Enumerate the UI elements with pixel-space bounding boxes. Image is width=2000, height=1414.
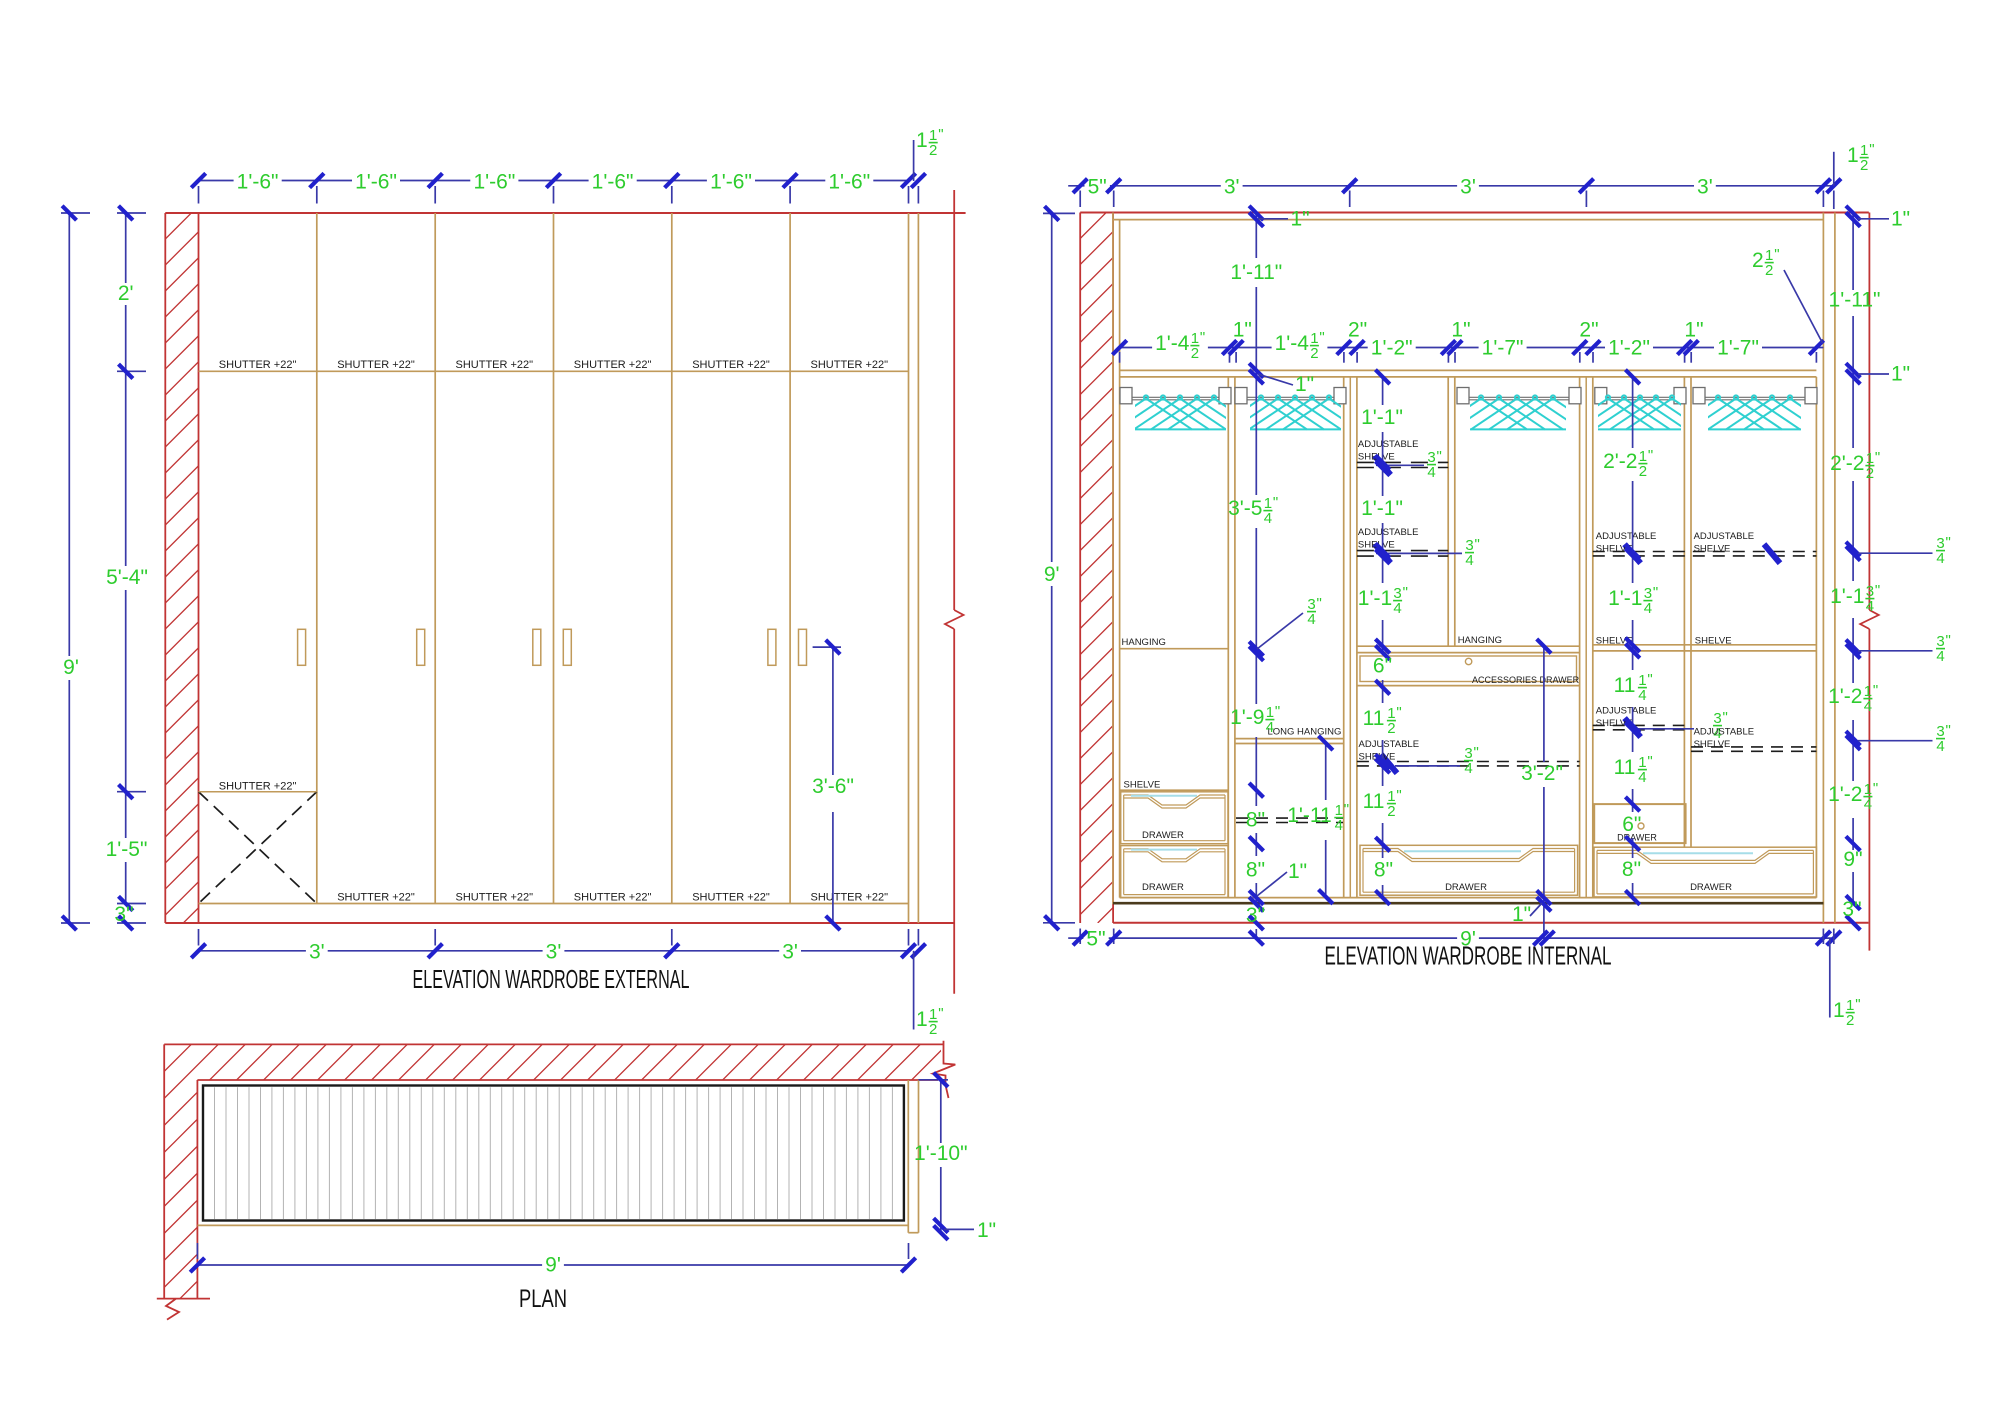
svg-text:1: 1	[916, 129, 928, 152]
svg-text:": "	[1275, 703, 1280, 720]
svg-text:ADJUSTABLE: ADJUSTABLE	[1694, 727, 1755, 738]
svg-text:1": 1"	[1233, 319, 1252, 342]
svg-text:": "	[1437, 448, 1442, 465]
svg-text:1": 1"	[1891, 207, 1910, 230]
svg-text:4: 4	[1864, 698, 1872, 715]
internal: module2 bay bottom shelf	[1357, 645, 1580, 647]
svg-text:1: 1	[1833, 999, 1845, 1022]
svg-text:1'-5": 1'-5"	[106, 838, 148, 861]
internal: module3 bottom drawer	[1594, 847, 1816, 897]
internal elevation: right wall line with break	[1868, 213, 1870, 611]
dim: external shutter height 3'-6"	[832, 647, 834, 775]
svg-text:2: 2	[1752, 249, 1764, 272]
svg-text:1'-1: 1'-1	[1830, 585, 1864, 608]
svg-text:5": 5"	[1088, 175, 1107, 198]
svg-text:ELEVATION WARDROBE EXTERNAL: ELEVATION WARDROBE EXTERNAL	[413, 964, 690, 994]
dim: internal shelf row 1'-4 1/2" etc	[1120, 347, 1153, 349]
internal: module3 left adjustable shelf (dashed)	[1593, 724, 1685, 726]
internal: module1 hanging shelf	[1120, 648, 1229, 650]
internal elevation: ceiling line	[1080, 212, 1869, 214]
svg-text:": "	[1946, 534, 1951, 551]
svg-text:SHUTTER +22": SHUTTER +22"	[337, 892, 415, 904]
svg-text:": "	[1653, 584, 1658, 601]
svg-text:SHUTTER +22": SHUTTER +22"	[456, 892, 534, 904]
svg-text:2'-2: 2'-2	[1830, 452, 1864, 475]
plan: wardrobe right side panel	[907, 1080, 909, 1233]
svg-text:": "	[1474, 744, 1479, 761]
internal: module2 adjustable shelf 2 (dashed)	[1357, 550, 1448, 552]
plan: wardrobe front line	[197, 1224, 908, 1226]
svg-text:5'-4": 5'-4"	[106, 566, 148, 589]
dim: external left column 2' / 5'-4" / 1'-5" / 3"	[125, 213, 127, 283]
internal: module2 bottom drawer	[1360, 845, 1578, 895]
svg-text:3": 3"	[1842, 898, 1861, 921]
svg-text:2': 2'	[118, 282, 134, 305]
dim: module1 vertical chain	[1255, 213, 1257, 258]
svg-text:2'-2: 2'-2	[1603, 450, 1637, 473]
svg-text:2: 2	[1860, 157, 1868, 174]
svg-text:ADJUSTABLE: ADJUSTABLE	[1358, 439, 1419, 450]
svg-text:1": 1"	[1288, 860, 1307, 883]
dim: external top width line 1'-6" x6	[199, 180, 234, 182]
svg-text:1'-2: 1'-2	[1828, 783, 1862, 806]
svg-text:": "	[1946, 722, 1951, 739]
internal: module3 rod + hangers right	[1693, 388, 1705, 404]
svg-text:11: 11	[1363, 790, 1385, 813]
svg-text:ADJUSTABLE: ADJUSTABLE	[1596, 531, 1657, 542]
svg-text:ADJUSTABLE: ADJUSTABLE	[1694, 531, 1755, 542]
dim: internal right outer chain	[1852, 213, 1854, 290]
svg-text:SHELVE: SHELVE	[1694, 739, 1731, 750]
svg-text:1": 1"	[977, 1219, 996, 1242]
dim: plan width 9'	[197, 1264, 542, 1266]
internal: module3 adjustable shelf top (dashed)	[1593, 551, 1817, 553]
svg-text:1'-1": 1'-1"	[1361, 497, 1403, 520]
svg-text:1'-6": 1'-6"	[710, 171, 752, 194]
internal elevation: bottom panel dark line	[1113, 902, 1823, 905]
internal: module1 long hanging shelf	[1235, 738, 1344, 740]
dim: plan shutter thickness 1"	[944, 1228, 974, 1230]
internal: module3 small drawer (6")	[1594, 804, 1685, 843]
internal: module2 adjustable shelf (dashed)	[1357, 761, 1580, 763]
svg-text:3'-5: 3'-5	[1228, 497, 1262, 520]
dim: external top right 1 1/2"	[911, 173, 925, 187]
internal elevation: module1 centre divider (1")	[1227, 377, 1229, 898]
svg-text:1'-10": 1'-10"	[914, 1142, 968, 1165]
svg-text:1'-7": 1'-7"	[1482, 337, 1524, 360]
internal elevation: carcass top panel inner line	[1113, 219, 1823, 221]
external elevation: right wall line with break	[953, 190, 955, 610]
svg-text:SHELVE: SHELVE	[1124, 780, 1161, 791]
svg-text:3'-2": 3'-2"	[1521, 762, 1563, 785]
plan: wall outlines	[164, 1043, 943, 1045]
svg-text:1'-2": 1'-2"	[1371, 337, 1413, 360]
internal: module1 drawer 1	[1121, 792, 1228, 844]
svg-text:": "	[1273, 494, 1278, 511]
svg-text:SHUTTER +22": SHUTTER +22"	[456, 359, 534, 371]
svg-text:1'-11: 1'-11	[1287, 804, 1331, 827]
internal: module1 hanging rod + hangers right	[1235, 388, 1247, 404]
svg-text:SHUTTER +22": SHUTTER +22"	[337, 359, 415, 371]
svg-text:1'-1: 1'-1	[1608, 587, 1642, 610]
internal elevation: carcass right panel	[1815, 377, 1817, 898]
svg-text:1: 1	[916, 1008, 928, 1031]
svg-text:SHUTTER +22": SHUTTER +22"	[811, 359, 889, 371]
svg-text:8": 8"	[1374, 859, 1393, 882]
svg-text:": "	[1723, 709, 1728, 726]
svg-text:6": 6"	[1373, 655, 1392, 678]
dim: internal top 5" + 3' x3	[1068, 185, 1084, 187]
svg-text:4: 4	[1464, 760, 1472, 777]
external elevation: ceiling line	[165, 212, 965, 214]
svg-text:2: 2	[1765, 262, 1773, 279]
svg-text:1'-9: 1'-9	[1230, 706, 1264, 729]
svg-text:2: 2	[1866, 465, 1874, 482]
internal: module1 drawer 2	[1121, 846, 1228, 898]
svg-text:ELEVATION WARDROBE INTERNAL: ELEVATION WARDROBE INTERNAL	[1325, 941, 1612, 971]
svg-text:3': 3'	[309, 940, 325, 963]
svg-text:": "	[1200, 329, 1205, 346]
svg-text:1": 1"	[1512, 903, 1531, 926]
dim: module3 vertical chain	[1632, 377, 1634, 448]
svg-text:2: 2	[1639, 463, 1647, 480]
svg-text:DRAWER: DRAWER	[1690, 882, 1732, 893]
svg-text:4: 4	[1936, 550, 1944, 567]
svg-text:9": 9"	[1843, 848, 1862, 871]
external elevation: shutter divider 1	[316, 213, 318, 904]
svg-text:": "	[1873, 682, 1878, 699]
svg-text:LONG HANGING: LONG HANGING	[1268, 727, 1342, 738]
svg-text:4: 4	[1638, 769, 1646, 786]
svg-text:2: 2	[1387, 720, 1395, 737]
svg-text:SHUTTER +22": SHUTTER +22"	[574, 892, 652, 904]
internal elevation: right filler panel	[1834, 213, 1836, 923]
dim: internal top right 1 1/2"	[1827, 179, 1841, 193]
svg-text:3': 3'	[782, 940, 798, 963]
svg-text:SHUTTER +22": SHUTTER +22"	[219, 781, 297, 793]
svg-text:1": 1"	[1451, 319, 1470, 342]
svg-text:DRAWER: DRAWER	[1142, 830, 1184, 841]
svg-text:11: 11	[1614, 674, 1636, 697]
svg-text:": "	[1647, 671, 1652, 688]
external elevation: shutter bottom rail line	[199, 903, 909, 905]
svg-text:SHELVE: SHELVE	[1694, 543, 1731, 554]
svg-text:6": 6"	[1622, 813, 1641, 836]
svg-text:1'-1: 1'-1	[1358, 587, 1392, 610]
dim: internal left overall 9'	[1051, 213, 1053, 562]
internal: module3 right adjustable shelf (dashed)	[1691, 746, 1816, 748]
svg-text:": "	[1403, 584, 1408, 601]
svg-text:SHUTTER +22": SHUTTER +22"	[574, 359, 652, 371]
svg-text:4: 4	[1864, 796, 1872, 813]
svg-text:": "	[1875, 449, 1880, 466]
svg-text:2: 2	[1387, 803, 1395, 820]
plan: wall break right (zigzag)	[933, 1041, 955, 1098]
svg-text:": "	[1475, 536, 1480, 553]
svg-text:": "	[938, 1005, 943, 1022]
external elevation: mirror cross box (dashed X)	[199, 792, 317, 904]
dim: internal bottom right 1 1/2"	[1829, 938, 1831, 1017]
svg-text:": "	[938, 126, 943, 143]
svg-text:": "	[1774, 246, 1779, 263]
svg-text:4: 4	[1465, 552, 1473, 569]
dim: module1 long-hanging vertical 1'-11 1/4"	[1325, 743, 1327, 800]
svg-text:1": 1"	[1891, 363, 1910, 386]
svg-text:4: 4	[1393, 600, 1401, 617]
svg-text:4: 4	[1335, 817, 1343, 834]
internal: module2 adjustable shelf 1 (dashed)	[1357, 461, 1448, 463]
internal elevation: top shelf (1" thick)	[1120, 369, 1817, 371]
internal: module3 rod + hangers left	[1595, 388, 1607, 404]
dim: external bottom 3' x3	[199, 950, 306, 952]
internal: module2 hanging rod + hangers	[1457, 388, 1469, 404]
svg-text:1'-1": 1'-1"	[1361, 406, 1403, 429]
svg-text:8": 8"	[1622, 858, 1641, 881]
external elevation: shutter handles	[298, 629, 306, 665]
svg-text:4: 4	[1264, 510, 1272, 527]
svg-text:1'-4: 1'-4	[1275, 332, 1310, 355]
svg-text:1'-2": 1'-2"	[1608, 337, 1650, 360]
internal elevation: floor line	[1113, 922, 1868, 924]
svg-text:": "	[1396, 704, 1401, 721]
external elevation: shutter divider 5	[789, 213, 791, 904]
svg-text:9': 9'	[1044, 563, 1060, 586]
internal elevation: bay bottom line	[1120, 897, 1817, 899]
plan: wall break bottom (zigzag)	[157, 1298, 210, 1300]
dim: external left overall 9'	[68, 213, 70, 656]
svg-text:DRAWER: DRAWER	[1142, 882, 1184, 893]
svg-text:3": 3"	[1246, 904, 1265, 927]
plan: shutter body (black box with slats)	[203, 1086, 904, 1221]
svg-text:": "	[1396, 787, 1401, 804]
svg-text:4: 4	[1638, 687, 1646, 704]
svg-text:4: 4	[1266, 719, 1274, 736]
svg-text:2: 2	[1310, 345, 1318, 362]
svg-text:4: 4	[1644, 600, 1652, 617]
svg-text:": "	[1647, 753, 1652, 770]
svg-text:11: 11	[1614, 756, 1636, 779]
internal: module1 shelf above drawers	[1120, 789, 1229, 791]
svg-text:HANGING: HANGING	[1122, 637, 1166, 648]
svg-text:3': 3'	[546, 940, 562, 963]
svg-text:ADJUSTABLE: ADJUSTABLE	[1359, 739, 1420, 750]
svg-text:1": 1"	[1291, 207, 1310, 230]
dim: plan depth 1'-10"	[940, 1080, 942, 1143]
svg-text:SHUTTER +22": SHUTTER +22"	[811, 892, 889, 904]
internal: module1 adjustable shelf (dashed)	[1236, 817, 1343, 819]
svg-text:1'-6": 1'-6"	[473, 171, 515, 194]
svg-text:1'-2: 1'-2	[1828, 685, 1862, 708]
svg-text:1'-6": 1'-6"	[355, 171, 397, 194]
internal elevation: partition module1/module2 (2")	[1343, 377, 1345, 898]
external elevation: shutter top rail line	[199, 370, 909, 372]
svg-text:1": 1"	[1684, 319, 1703, 342]
svg-text:ACCESSORIES DRAWER: ACCESSORIES DRAWER	[1472, 675, 1580, 685]
svg-text:PLAN: PLAN	[519, 1285, 567, 1313]
svg-text:4: 4	[1307, 611, 1315, 628]
svg-text:1'-4: 1'-4	[1155, 332, 1190, 355]
internal: module1 hanging rod + hangers left	[1120, 388, 1132, 404]
external elevation: floor line	[165, 922, 955, 924]
svg-text:": "	[1855, 996, 1860, 1013]
dim: internal bottom 5" + 9'	[1068, 937, 1083, 939]
svg-text:4: 4	[1936, 648, 1944, 665]
svg-text:": "	[1946, 632, 1951, 649]
svg-text:DRAWER: DRAWER	[1445, 882, 1487, 893]
svg-text:": "	[1869, 141, 1874, 158]
svg-text:11: 11	[1363, 707, 1385, 730]
external elevation: shutter divider 3	[553, 213, 555, 904]
svg-text:": "	[1873, 780, 1878, 797]
internal: module3 solid shelf	[1593, 644, 1817, 646]
dim: external bottom right 1 1/2"	[911, 944, 925, 958]
svg-text:2: 2	[929, 142, 937, 159]
svg-text:": "	[1344, 801, 1349, 818]
internal elevation: partition module2/module3 (2")	[1579, 377, 1581, 898]
svg-text:1'-11": 1'-11"	[1829, 289, 1881, 312]
svg-text:5": 5"	[1086, 928, 1105, 951]
svg-text:SHELVE: SHELVE	[1695, 636, 1732, 647]
svg-text:2": 2"	[1348, 319, 1367, 342]
svg-text:3': 3'	[1697, 175, 1713, 198]
svg-text:8": 8"	[1246, 809, 1265, 832]
svg-text:8": 8"	[1246, 859, 1265, 882]
svg-text:9': 9'	[63, 656, 79, 679]
external elevation: shutter divider 4	[671, 213, 673, 904]
svg-text:1'-6": 1'-6"	[592, 171, 634, 194]
svg-text:1: 1	[1847, 144, 1859, 167]
internal elevation: module2 divider (1")	[1447, 377, 1449, 646]
svg-text:": "	[1317, 595, 1322, 612]
dim: module2 vertical chain	[1382, 377, 1384, 405]
svg-text:3': 3'	[1224, 175, 1240, 198]
svg-text:": "	[1648, 447, 1653, 464]
svg-text:3": 3"	[114, 903, 133, 926]
svg-text:SHUTTER +22": SHUTTER +22"	[692, 892, 770, 904]
svg-text:1'-6": 1'-6"	[237, 171, 279, 194]
svg-text:4: 4	[1936, 738, 1944, 755]
svg-text:1": 1"	[1295, 373, 1314, 396]
external elevation: shutter divider 2	[434, 213, 436, 904]
external elevation: right side panel lines	[908, 213, 910, 923]
internal elevation: carcass left panel	[1112, 213, 1114, 905]
svg-text:1'-7": 1'-7"	[1717, 337, 1759, 360]
svg-text:1'-11": 1'-11"	[1230, 261, 1282, 284]
svg-text:2: 2	[929, 1021, 937, 1038]
svg-text:2: 2	[1846, 1012, 1854, 1029]
svg-text:4: 4	[1427, 464, 1435, 481]
svg-text:9': 9'	[545, 1254, 561, 1277]
internal: module2 accessories drawer	[1360, 656, 1577, 682]
svg-text:3': 3'	[1460, 175, 1476, 198]
svg-text:SHUTTER +22": SHUTTER +22"	[219, 359, 297, 371]
svg-text:ADJUSTABLE: ADJUSTABLE	[1358, 527, 1419, 538]
svg-text:2: 2	[1191, 345, 1199, 362]
svg-text:3'-6": 3'-6"	[812, 775, 854, 798]
svg-text:4: 4	[1866, 598, 1874, 615]
svg-text:1'-6": 1'-6"	[828, 171, 870, 194]
svg-text:": "	[1875, 582, 1880, 599]
svg-text:2": 2"	[1579, 319, 1598, 342]
dim: module2 3'-2" vertical	[1543, 646, 1545, 762]
svg-text:": "	[1319, 329, 1324, 346]
svg-text:ADJUSTABLE: ADJUSTABLE	[1596, 706, 1657, 717]
svg-text:HANGING: HANGING	[1458, 635, 1502, 646]
internal elevation: module3 divider (1")	[1683, 377, 1685, 847]
svg-text:SHUTTER +22": SHUTTER +22"	[692, 359, 770, 371]
